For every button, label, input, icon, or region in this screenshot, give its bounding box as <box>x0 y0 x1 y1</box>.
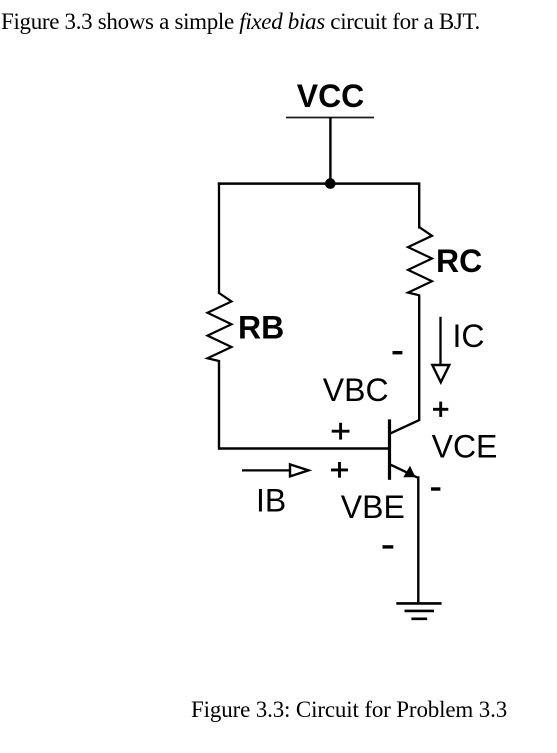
svg-text:VCC: VCC <box>297 78 365 114</box>
svg-text:IB: IB <box>256 483 286 519</box>
heading sentence <box>1 9 480 35</box>
plus sign of VBE <box>331 462 348 478</box>
transistor Q1 collector lead <box>390 420 420 434</box>
svg-text:VCE: VCE <box>432 429 498 465</box>
wire RB to base corner <box>219 360 390 449</box>
minus sign of VCE <box>431 487 440 490</box>
plus sign of VBC <box>332 423 350 440</box>
svg-text:RB: RB <box>238 310 284 346</box>
resistor RC <box>408 227 432 295</box>
wire top rail <box>218 182 419 185</box>
wire RC to collector <box>418 295 420 422</box>
wire VCC to junction <box>329 118 331 185</box>
minus sign of VBC <box>393 351 403 354</box>
ground <box>396 603 441 618</box>
minus sign of VBE <box>383 545 394 548</box>
resistor RB <box>208 293 232 361</box>
junction dot <box>325 178 336 189</box>
current arrow IB <box>242 464 309 476</box>
transistor Q1 emitter arrowhead <box>403 466 415 478</box>
wire left branch down <box>218 182 220 294</box>
transistor Q1 emitter lead <box>390 464 418 477</box>
svg-text:RC: RC <box>436 243 482 279</box>
figure caption <box>191 697 507 723</box>
VCC rail bar <box>286 117 374 119</box>
current arrow IC <box>432 317 449 383</box>
plus sign of VCE <box>433 402 448 417</box>
svg-text:IC: IC <box>453 318 485 354</box>
transistor Q1 base bar <box>388 419 391 479</box>
svg-text:VBC: VBC <box>323 372 389 408</box>
svg-text:VBE: VBE <box>341 489 405 525</box>
wire emitter down to ground <box>417 476 419 603</box>
wire right branch down <box>418 182 420 228</box>
